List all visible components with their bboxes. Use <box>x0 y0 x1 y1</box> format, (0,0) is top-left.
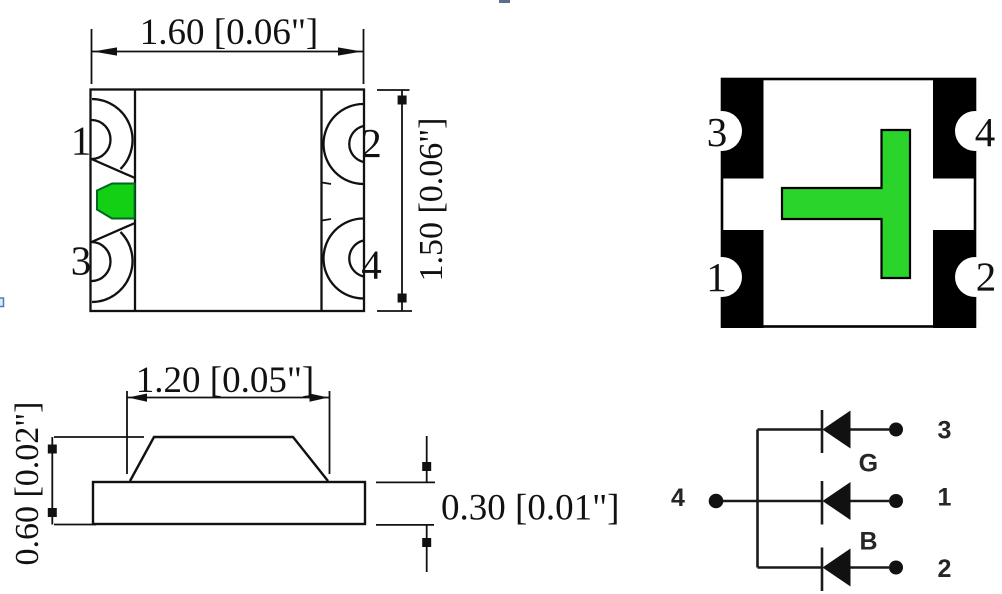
svg-text:1.20 [0.05"]: 1.20 [0.05"] <box>136 360 315 401</box>
svg-text:0.60 [0.02"]: 0.60 [0.02"] <box>9 401 46 565</box>
svg-text:4: 4 <box>975 109 996 155</box>
svg-text:2: 2 <box>938 555 952 583</box>
svg-text:1: 1 <box>71 118 92 164</box>
svg-text:1.60 [0.06"]: 1.60 [0.06"] <box>140 12 319 53</box>
svg-text:1.50 [0.06"]: 1.50 [0.06"] <box>413 117 450 281</box>
svg-text:B: B <box>859 528 877 556</box>
svg-text:3: 3 <box>938 417 952 445</box>
svg-text:2: 2 <box>361 120 382 166</box>
svg-text:1: 1 <box>938 484 952 512</box>
svg-text:4: 4 <box>671 484 685 512</box>
svg-text:2: 2 <box>976 254 997 300</box>
svg-text:1: 1 <box>706 254 727 300</box>
svg-text:G: G <box>859 450 878 478</box>
svg-text:0.30 [0.01"]: 0.30 [0.01"] <box>441 488 620 529</box>
svg-text:3: 3 <box>71 238 92 284</box>
svg-text:4: 4 <box>361 242 382 288</box>
svg-text:3: 3 <box>707 109 728 155</box>
